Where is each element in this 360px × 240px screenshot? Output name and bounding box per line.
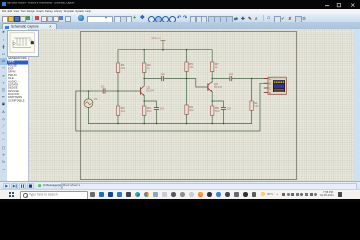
svg-text:10k: 10k [121,66,126,70]
file icon group [2,16,8,23]
svg-text:C5: C5 [227,107,231,111]
node bus-C4 [156,123,158,125]
tray [261,192,265,196]
transistor Q1 [141,83,155,97]
wire collector1 [143,73,145,83]
resistor R1 [116,63,125,73]
wire emitter2 [211,92,213,106]
node collector1 [143,78,145,80]
node rail-R3 [143,49,145,51]
windows logo [9,192,11,194]
wire R4 bottom [143,116,145,124]
node collector2 [211,78,213,80]
status bar [0,181,360,190]
transistor Q2 [208,82,223,92]
wire ground bus [89,123,252,125]
resistor R7 [211,62,220,72]
svg-text:560: 560 [147,109,152,113]
sine source V1 [84,91,98,124]
resistor R4 [143,106,152,116]
wire C3 to scope [232,78,266,80]
node emitter1 [143,100,145,102]
wire collector2 [211,72,213,82]
node bias2 [186,78,188,80]
oscilloscope U1 [264,77,286,95]
wire bias1 column [117,73,119,107]
power terminal VCC [152,36,166,50]
svg-text:2k2: 2k2 [189,108,194,112]
node bus-R4 [143,123,145,125]
nav / zoom group [114,16,121,23]
pin A [264,78,268,80]
object selector panel [7,29,29,181]
wire base1 [105,90,140,92]
node RL top [251,78,253,80]
wire top VCC rail [118,50,212,63]
pin D [264,92,268,94]
node rail-R5 [186,49,188,51]
resistor R2 [116,106,125,116]
node bus-R6 [186,123,188,125]
svg-text:C3: C3 [229,72,233,76]
resistor R8 [211,106,220,116]
bottom black strip [0,199,360,203]
wire input loop left [76,83,266,131]
resistor R6 [185,105,194,115]
node input [88,90,90,92]
wire bias2 column [186,72,188,106]
pin C [264,87,268,89]
wire emitter1 [143,96,145,106]
node bus-R2 [117,123,119,125]
svg-text:C1: C1 [101,85,105,89]
capacitor C3 [212,72,233,81]
svg-text:BC547: BC547 [214,85,223,89]
wire R6 bottom [186,115,188,124]
svg-text:C: C [269,87,271,90]
svg-text:10k: 10k [189,65,194,69]
resistor RL [250,101,259,111]
svg-text:V1: V1 [94,97,98,101]
title bar [0,0,360,9]
node bus-R8 [211,123,213,125]
search box [20,191,88,200]
wire RL top lead [251,79,253,102]
preview pane [7,30,39,57]
resistor R5 [185,62,194,72]
wire R8 bottom [211,116,213,124]
svg-text:560: 560 [215,109,220,113]
pin B [264,82,268,84]
left toolbar strip [0,29,8,181]
sheet combo [87,16,113,24]
wire bias2 top lead [186,50,188,62]
wire C2 to Q2 base [164,79,208,88]
taskbar [0,189,360,200]
wire RL bottom [251,111,253,124]
wire R2 bottom [117,116,119,124]
main canvas with grid [0,29,360,181]
wire R3 top lead [143,50,145,63]
svg-text:D: D [269,92,271,95]
toolbar [0,14,360,23]
sheet border [80,31,297,180]
taskbar icons [90,192,95,197]
tab bar [0,22,360,30]
svg-text:BC547: BC547 [146,88,155,92]
capacitor C2 [144,72,165,81]
object selector list [7,57,28,123]
svg-text:VCC+5V: VCC+5V [152,36,162,40]
node rail-VCC [162,49,164,51]
menu bar [0,9,360,16]
capacitor C1 [89,85,106,94]
node base1 [117,90,119,92]
svg-text:C2: C2 [161,72,165,76]
svg-text:10k: 10k [254,104,259,108]
right window edge [354,29,360,181]
svg-text:2k2: 2k2 [121,109,126,113]
svg-text:C4: C4 [160,107,164,111]
capacitor C5 bypass [212,101,231,124]
node bus-C5 [223,123,225,125]
resistor R3 [143,63,152,73]
node emitter2 [211,100,213,102]
capacitor C4 bypass [144,101,164,124]
